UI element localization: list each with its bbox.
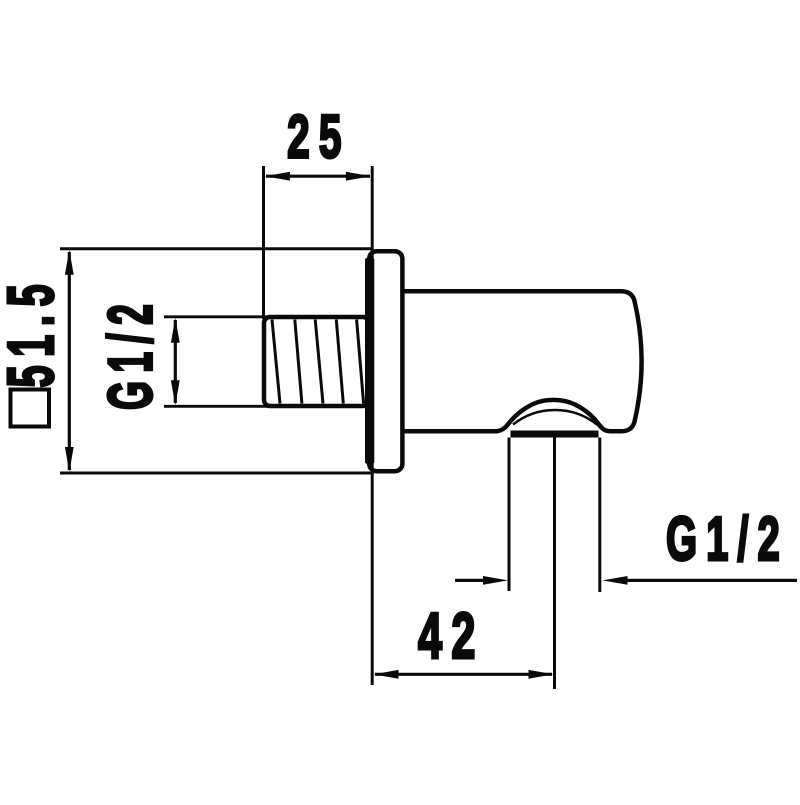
extension line left of 25 dim (x=263.5) [262,166,265,319]
thread extension line bottom (y=406.3) [164,405,268,408]
square symbol of 51.5 label [11,390,50,427]
svg-text:51.5: 51.5 [0,276,67,388]
svg-text:G1/2: G1/2 [666,505,789,574]
svg-text:42: 42 [418,599,485,672]
outlet center line (x=554.5) [553,438,556,690]
flange seal bar (thick black) [365,258,374,464]
dimension line 42 with arrows [374,670,554,679]
outlet left edge extension (x=509) [508,438,511,592]
dim label 42 [418,599,485,672]
thread label G1/2 (rotated) [96,296,165,410]
spout collar inner arc [513,410,597,425]
extension line 51.5 top (y=248.8) [60,247,371,250]
thread hatch lines [272,320,364,404]
spout mouth bar (thick) [511,431,599,438]
thread extension line top (y=316.8) [164,315,268,318]
dimension line 51.5 with arrows [65,250,74,472]
svg-text:G1/2: G1/2 [96,296,165,410]
outlet right edge extension (x=599.8) [598,438,601,593]
outlet dimension left tail with arrow [455,576,508,585]
dim label 25 [287,103,351,171]
svg-text:25: 25 [287,103,351,171]
elbow body outline with right end cap and spout dome [402,291,642,431]
outlet label G1/2 [666,505,789,574]
outlet dimension right tail with arrow [603,576,798,585]
extension line 51.5 bottom (y=473) [60,472,374,475]
dimension line 25 with arrows [265,172,371,181]
threaded inlet body G1/2 [264,317,369,406]
extension line shared by 25 and 42 dims (x=372.2) [371,166,374,685]
wall flange plate [369,251,402,471]
dim label 51.5 (rotated) [0,276,67,388]
thread dimension line with arrows [171,318,180,406]
